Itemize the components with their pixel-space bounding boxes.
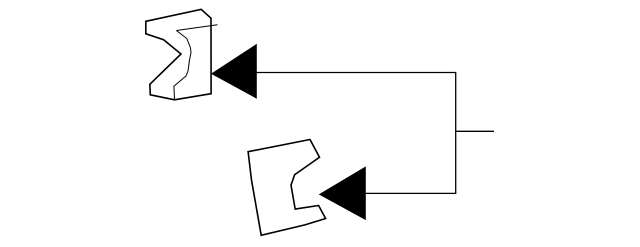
upper retainer inner ridge line <box>174 31 191 100</box>
part outline: lower retainer <box>248 140 326 236</box>
wire: stub to right <box>456 130 495 132</box>
wire: vertical connector <box>455 72 457 194</box>
part outline: upper retainer (outer edge) <box>146 9 211 99</box>
wire: arrow 2 to junction <box>365 192 456 194</box>
arrow 1 (to upper retainer) <box>212 45 256 98</box>
arrow 2 (to lower retainer) <box>320 167 366 219</box>
upper retainer top edge line <box>176 25 217 31</box>
wire: arrow 1 to junction <box>256 72 456 74</box>
